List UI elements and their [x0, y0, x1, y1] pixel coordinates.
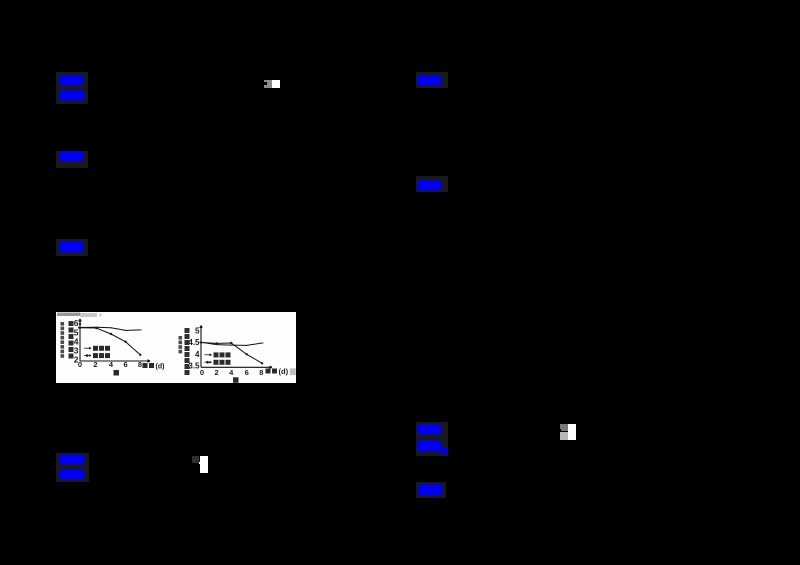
title 乙 [233, 377, 239, 383]
answer box C (left) [56, 239, 88, 256]
bottom left answers [56, 453, 89, 482]
svg-text:8: 8 [259, 368, 263, 377]
y tick labels 6..2 [74, 318, 79, 364]
right column: answers R3/R4 with subscript [416, 422, 448, 456]
y axis label columns [69, 321, 74, 359]
right column: answer R1 [416, 72, 448, 88]
answer box B (left) [56, 151, 88, 168]
small formula image W3 [192, 456, 199, 463]
small formula image W1 [264, 80, 272, 88]
y axis [79, 319, 81, 361]
svg-text:0: 0 [78, 360, 82, 369]
control line (yi) [201, 342, 262, 345]
x axis [80, 360, 150, 362]
svg-text:(d): (d) [279, 367, 289, 376]
svg-text:3.5: 3.5 [188, 362, 200, 371]
svg-text:6: 6 [245, 368, 249, 377]
right column: answer R2 [416, 176, 448, 192]
top smudges [57, 313, 80, 317]
control line (jia) [80, 327, 140, 330]
small formula image W2 [560, 424, 568, 432]
svg-text:4: 4 [229, 368, 234, 377]
title 甲 [114, 370, 120, 376]
svg-text:4.5: 4.5 [188, 338, 200, 347]
x tick labels 0..8 [78, 360, 142, 369]
experiment line (yi) [201, 343, 262, 364]
legend [84, 347, 91, 356]
right column: answer R5 [416, 482, 446, 498]
chart image (two line charts) [56, 312, 296, 383]
svg-text:(d): (d) [156, 363, 165, 370]
svg-text:4: 4 [195, 350, 200, 359]
svg-text:5: 5 [195, 327, 200, 336]
svg-text:2: 2 [215, 368, 219, 377]
experiment line (jia) [80, 328, 140, 355]
legend (yi) [205, 354, 212, 363]
y axis label columns (yi) [185, 328, 190, 375]
svg-text:0: 0 [200, 368, 204, 377]
svg-text:6: 6 [124, 360, 128, 369]
x axis label 时间(d) as blobs + (d) [143, 363, 155, 368]
svg-text:8: 8 [138, 360, 142, 369]
svg-text:2: 2 [93, 360, 97, 369]
answer box A (left, two lines) [56, 72, 88, 104]
